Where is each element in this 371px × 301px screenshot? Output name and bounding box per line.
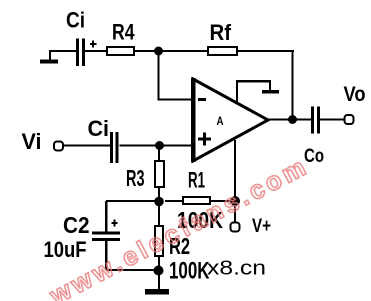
svg-text:Co: Co [304, 146, 324, 167]
svg-text:R3: R3 [126, 165, 145, 191]
svg-text:Vo: Vo [344, 83, 366, 106]
svg-text:Rf: Rf [210, 20, 232, 45]
svg-text:10uF: 10uF [44, 237, 87, 262]
svg-text:V+: V+ [252, 215, 271, 237]
svg-text:100K: 100K [169, 258, 210, 285]
svg-text:C2: C2 [63, 212, 90, 238]
svg-text:R4: R4 [112, 20, 135, 45]
svg-text:x8.cn: x8.cn [207, 257, 266, 280]
svg-text:Vi: Vi [22, 129, 42, 154]
svg-text:Ci: Ci [66, 8, 85, 33]
svg-text:A: A [217, 116, 224, 128]
svg-text:R1: R1 [188, 168, 205, 193]
svg-text:Ci: Ci [88, 116, 110, 141]
